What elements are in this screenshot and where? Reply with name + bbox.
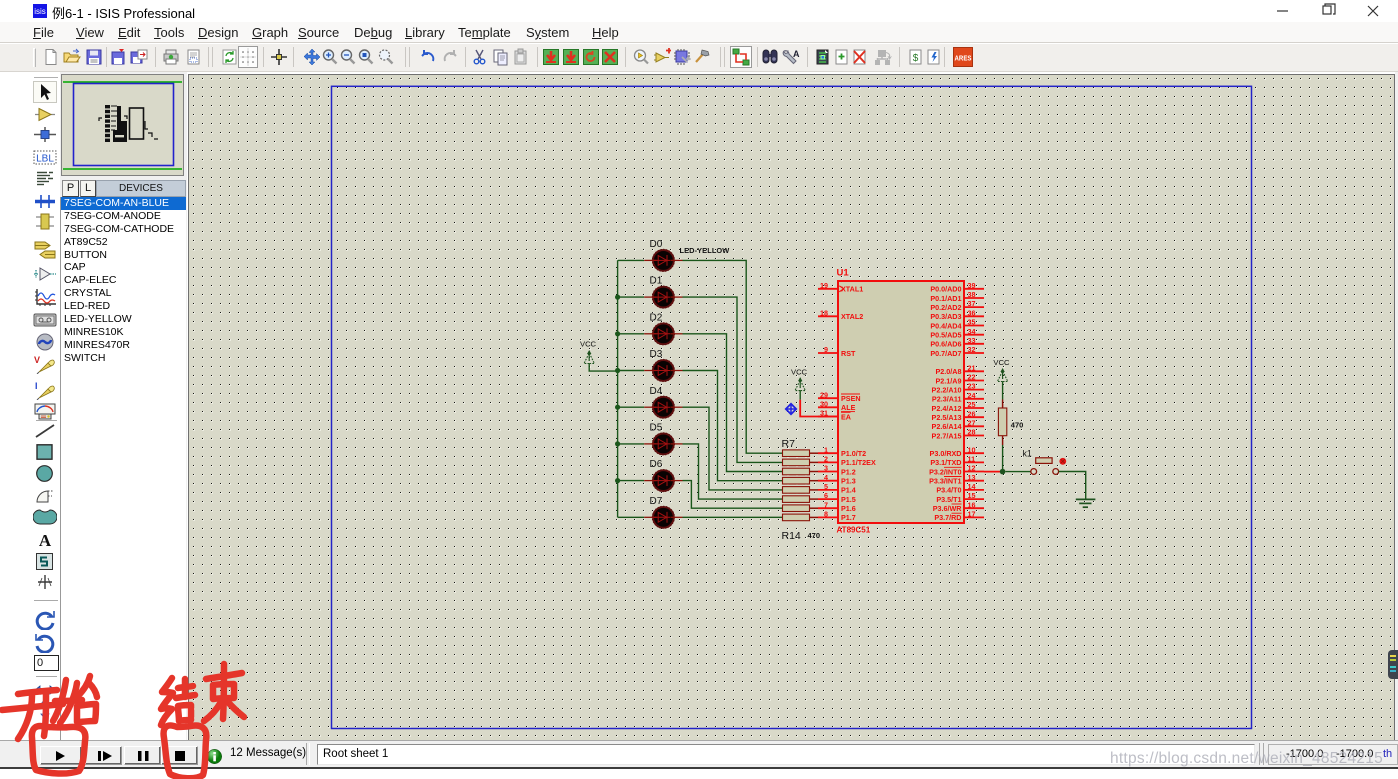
LED D3	[644, 349, 682, 382]
resistor R14	[783, 514, 819, 521]
resistor R13	[783, 505, 819, 512]
wire resistor to node	[1002, 445, 1004, 472]
pin 31 EA	[818, 409, 851, 422]
button k1	[1023, 448, 1067, 474]
resistor R10	[783, 477, 819, 484]
svg-text:33: 33	[968, 336, 976, 345]
svg-text:6: 6	[824, 491, 828, 500]
svg-text:V: V	[34, 355, 40, 365]
resistor R8	[783, 459, 819, 466]
pin 5 P1.4	[818, 482, 856, 495]
svg-text:U1: U1	[837, 268, 850, 279]
wire bus to LED D4	[618, 406, 645, 408]
svg-text:LBL: LBL	[36, 154, 54, 165]
svg-text:P2.0/A8: P2.0/A8	[936, 367, 962, 376]
pin 19 XTAL1	[818, 281, 863, 294]
wire bus to LED D1	[618, 296, 645, 298]
pin 12 P3.2/INT0	[929, 464, 984, 477]
toolbar	[0, 44, 1398, 72]
power VCC left	[580, 340, 618, 372]
svg-text:D1: D1	[650, 276, 663, 287]
svg-text:PSEN: PSEN	[841, 394, 861, 403]
svg-text:P0.2/AD2: P0.2/AD2	[930, 303, 961, 312]
svg-text:38: 38	[968, 290, 976, 299]
svg-text:k1: k1	[1023, 448, 1032, 458]
menu bar	[0, 22, 1398, 43]
pin 18 XTAL2	[818, 308, 863, 321]
svg-text:P3.2/INT0: P3.2/INT0	[929, 467, 961, 476]
pin 35 P0.4/AD4	[930, 318, 984, 331]
wire bus to LED D2	[618, 333, 645, 335]
wire D3 to R10	[683, 371, 783, 481]
svg-text:P0.5/AD5: P0.5/AD5	[930, 331, 961, 340]
pin 39 P0.0/AD0	[930, 281, 984, 294]
svg-text:39: 39	[968, 281, 976, 290]
svg-text:P0.0/AD0: P0.0/AD0	[930, 285, 961, 294]
svg-text:35: 35	[968, 318, 976, 327]
pin 28 P2.7/A15	[932, 428, 984, 441]
svg-text:D4: D4	[650, 386, 663, 397]
pin 33 P0.6/AD6	[930, 336, 984, 349]
svg-text:P2.6/A14: P2.6/A14	[932, 422, 962, 431]
svg-text:P2.5/A13: P2.5/A13	[932, 413, 962, 422]
svg-text:32: 32	[968, 345, 976, 354]
wire D6 to R13	[683, 481, 783, 509]
svg-text:P3.4/T0: P3.4/T0	[936, 486, 961, 495]
svg-text:P3.6/WR: P3.6/WR	[933, 504, 963, 513]
svg-text:EA: EA	[841, 412, 851, 421]
annotation circle around play	[32, 726, 86, 774]
wire D7 to R14	[683, 516, 783, 518]
junction bus D2	[615, 331, 620, 336]
svg-text:5: 5	[824, 482, 828, 491]
svg-text:D7: D7	[650, 496, 663, 507]
wire pin12 to node	[984, 471, 1001, 473]
svg-text:2: 2	[824, 455, 828, 464]
LED D1	[644, 276, 682, 309]
svg-text:24: 24	[968, 391, 976, 400]
svg-text:XTAL2: XTAL2	[841, 312, 863, 321]
wire bus to LED D6	[618, 480, 645, 482]
svg-text:$: $	[913, 53, 919, 64]
svg-text:P1.5: P1.5	[841, 495, 856, 504]
svg-text:11: 11	[968, 455, 976, 464]
svg-text:LED-YELLOW: LED-YELLOW	[680, 246, 730, 255]
svg-text:23: 23	[968, 382, 976, 391]
pin 1 P1.0/T2	[818, 445, 866, 458]
svg-text:14: 14	[968, 482, 976, 491]
svg-text:7: 7	[824, 500, 828, 509]
CSDN watermark	[1110, 750, 1383, 768]
pin 10 P3.0/RXD	[930, 445, 984, 458]
svg-text:18: 18	[820, 308, 828, 317]
svg-text:17: 17	[968, 510, 976, 519]
title bar	[0, 0, 1398, 22]
svg-text:P0.4/AD4: P0.4/AD4	[930, 321, 961, 330]
grid dots	[189, 75, 1395, 741]
resistor R12	[783, 496, 819, 503]
svg-text:VCC: VCC	[791, 367, 808, 376]
pin 9 RST	[818, 345, 856, 358]
pin 16 P3.6/WR	[933, 500, 984, 513]
junction bus D4	[615, 405, 620, 410]
svg-text:P1.2: P1.2	[841, 467, 856, 476]
LED D4	[644, 386, 682, 419]
pin 17 P3.7/RD	[934, 510, 984, 523]
svg-text:4: 4	[824, 473, 828, 482]
device list	[60, 197, 186, 740]
wire bus to LED D0	[618, 259, 645, 261]
pin 27 P2.6/A14	[932, 418, 984, 431]
svg-text:34: 34	[968, 327, 976, 336]
svg-text:36: 36	[968, 308, 976, 317]
svg-text:D3: D3	[650, 349, 663, 360]
svg-text:P1.4: P1.4	[841, 486, 856, 495]
svg-text:ARES: ARES	[955, 54, 972, 63]
wire D2 to R9	[683, 334, 783, 472]
origin marker blue diamond	[786, 404, 796, 414]
svg-text:AT89C51: AT89C51	[837, 526, 871, 535]
left sidebar	[0, 72, 62, 740]
ground	[1076, 499, 1096, 507]
svg-text:R7: R7	[782, 438, 796, 450]
pin 36 P0.3/AD3	[930, 308, 984, 321]
svg-text:25: 25	[968, 400, 976, 409]
svg-text:P3.5/T1: P3.5/T1	[936, 495, 961, 504]
resistor R7	[783, 450, 819, 457]
junction bus D3	[615, 368, 620, 373]
svg-text:P3.0/RXD: P3.0/RXD	[930, 449, 962, 458]
svg-text:15: 15	[968, 491, 976, 500]
junction bus D5	[615, 441, 620, 446]
clock mark XTAL1	[839, 286, 843, 292]
svg-text:P3.3/INT1: P3.3/INT1	[929, 477, 961, 486]
svg-text:13: 13	[968, 473, 976, 482]
LED D7	[644, 496, 682, 529]
bottom bar	[0, 740, 1398, 768]
svg-text:D6: D6	[650, 459, 663, 470]
svg-text:P0.6/AD6: P0.6/AD6	[930, 340, 961, 349]
csdn side widget	[1388, 650, 1398, 679]
pin 32 P0.7/AD7	[930, 345, 984, 358]
svg-text:D0: D0	[650, 239, 663, 250]
pin 37 P0.2/AD2	[930, 299, 984, 312]
power VCC right	[993, 358, 1010, 399]
LED D2	[644, 312, 682, 345]
svg-text:P2.3/A11: P2.3/A11	[932, 395, 962, 404]
pin 15 P3.5/T1	[936, 491, 984, 504]
svg-text:P3.7/RD: P3.7/RD	[934, 513, 961, 522]
resistor R11	[783, 487, 819, 494]
pin 22 P2.1/A9	[936, 373, 984, 386]
resistor 470 right	[998, 400, 1023, 446]
svg-text:3: 3	[824, 464, 828, 473]
devices panel	[60, 72, 187, 740]
svg-text:P1.3: P1.3	[841, 477, 856, 486]
pin 29 PSEN	[818, 390, 861, 403]
annotation 开	[18, 690, 57, 694]
junction bus D6	[615, 478, 620, 483]
svg-text:30: 30	[820, 399, 828, 408]
message icon	[207, 749, 222, 764]
svg-text:28: 28	[968, 428, 976, 437]
svg-text:P1.6: P1.6	[841, 504, 856, 513]
svg-text:P2.7/A15: P2.7/A15	[932, 431, 962, 440]
pin 24 P2.3/A11	[932, 391, 984, 404]
svg-text:A: A	[793, 49, 800, 59]
wire D4 to R11	[683, 407, 783, 490]
svg-text:A: A	[39, 531, 52, 548]
svg-text:P1.1/T2EX: P1.1/T2EX	[841, 458, 876, 467]
svg-text:D5: D5	[650, 423, 663, 434]
sheet border	[332, 86, 1252, 728]
pin 4 P1.3	[818, 473, 856, 486]
pin 8 P1.7	[818, 510, 856, 523]
pin 25 P2.4/A12	[932, 400, 984, 413]
pin 6 P1.5	[818, 491, 856, 504]
svg-text:37: 37	[968, 299, 976, 308]
svg-text:26: 26	[968, 409, 976, 418]
svg-text:XTAL1: XTAL1	[841, 285, 863, 294]
pin 13 P3.3/INT1	[929, 473, 984, 486]
chip U1 AT89C51 body	[838, 281, 964, 523]
wire left anode bus	[617, 260, 619, 517]
svg-text:P0.3/AD3: P0.3/AD3	[930, 312, 961, 321]
wire node to button	[1006, 471, 1031, 473]
svg-text:27: 27	[968, 418, 976, 427]
root sheet field	[317, 744, 1255, 765]
LED D0	[644, 239, 682, 272]
pin 26 P2.5/A13	[932, 409, 984, 422]
svg-text:29: 29	[820, 390, 828, 399]
pin 30 ALE	[818, 399, 856, 412]
annotation 始	[53, 680, 66, 721]
svg-text:VCC: VCC	[993, 358, 1010, 367]
pin 7 P1.6	[818, 500, 856, 513]
wire D0 to R7	[683, 260, 783, 453]
wire D5 to R12	[683, 444, 783, 499]
svg-text:isis: isis	[34, 7, 46, 16]
svg-text:I: I	[35, 381, 38, 391]
svg-text:P2.2/A10: P2.2/A10	[932, 385, 962, 394]
svg-text:P1.7: P1.7	[841, 513, 856, 522]
wire bus to LED D5	[618, 443, 645, 445]
svg-text:8: 8	[824, 510, 828, 519]
svg-text:22: 22	[968, 373, 976, 382]
LED D5	[644, 423, 682, 456]
svg-text:P1.0/T2: P1.0/T2	[841, 449, 866, 458]
svg-text:16: 16	[968, 500, 976, 509]
svg-text:19: 19	[820, 281, 828, 290]
svg-text:VCC: VCC	[580, 340, 597, 349]
power VCC middle	[791, 367, 838, 416]
wire bus to LED D7	[618, 516, 645, 518]
svg-text:12: 12	[968, 464, 976, 473]
pin 34 P0.5/AD5	[930, 327, 984, 340]
svg-text:RST: RST	[841, 349, 856, 358]
svg-text:P0.7/AD7: P0.7/AD7	[930, 349, 961, 358]
junction bus D1	[615, 295, 620, 300]
annotation 结	[161, 678, 173, 725]
pin 3 P1.2	[818, 464, 856, 477]
svg-text:D2: D2	[650, 312, 663, 323]
wire bus to LED D3	[618, 370, 645, 372]
svg-text:P2.1/A9: P2.1/A9	[936, 376, 962, 385]
preview window	[61, 74, 184, 176]
simulation buttons	[40, 746, 82, 765]
pin 14 P3.4/T0	[936, 482, 984, 495]
P L DEVICES header	[62, 180, 79, 197]
pin 2 P1.1/T2EX	[818, 455, 876, 468]
svg-text:P2.4/A12: P2.4/A12	[932, 404, 962, 413]
pin 21 P2.0/A8	[936, 363, 984, 376]
pin 23 P2.2/A10	[932, 382, 984, 395]
canvas	[188, 74, 1395, 740]
resistor R9	[783, 468, 819, 475]
svg-text:10: 10	[968, 445, 976, 454]
annotation circle around stop	[164, 725, 207, 778]
annotation 束	[223, 664, 224, 719]
svg-text:1: 1	[824, 445, 828, 454]
coordinates	[1268, 744, 1398, 765]
svg-text:ALE: ALE	[841, 403, 856, 412]
svg-text:P3.1/TXD: P3.1/TXD	[930, 458, 961, 467]
pin 11 P3.1/TXD	[930, 455, 984, 468]
svg-text:470: 470	[1011, 420, 1024, 429]
LED D6	[644, 459, 682, 492]
svg-text:P0.1/AD1: P0.1/AD1	[930, 294, 961, 303]
svg-text:470: 470	[808, 531, 821, 540]
svg-text:21: 21	[968, 363, 976, 372]
svg-text:R14: R14	[782, 530, 801, 542]
wire button to ground	[1059, 472, 1086, 499]
svg-text:9: 9	[824, 345, 828, 354]
pin 38 P0.1/AD1	[930, 290, 984, 303]
junction node P3.2	[1000, 469, 1006, 475]
wire D1 to R8	[683, 297, 783, 462]
